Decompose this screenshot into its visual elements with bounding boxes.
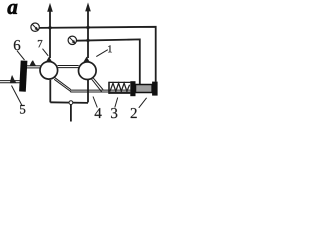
gauge G2 (pressure gauge) (68, 36, 76, 44)
node A junction dot left (48, 26, 51, 29)
wire tank line horizontal (50, 101, 88, 104)
gauge G1 (pressure gauge) (31, 23, 39, 31)
pump 1 outlet triangle (83, 57, 90, 63)
node C junction dot right gauge (86, 39, 89, 42)
input shaft 5 double line (0, 81, 20, 83)
wire line B horizontal y40.5 to right then down (77, 39, 140, 84)
arrow top of right supply line (85, 2, 91, 11)
label 7 leader (43, 49, 49, 56)
label 3 (111, 108, 117, 118)
wire supply line left vertical (49, 10, 51, 58)
node B junction dot crossing (86, 26, 89, 29)
pump 1 (right variable pump) circle (79, 62, 97, 80)
cylinder 2 barrel (136, 85, 153, 93)
label 3 leader (115, 98, 118, 108)
spring zigzag (110, 83, 130, 91)
spring 3 box (109, 82, 131, 94)
linkage 4 diagonal from pump 1 double line (92, 78, 104, 92)
drive block 6 (black bar) (19, 60, 27, 91)
label 6 (14, 40, 20, 50)
wire pump2 suction drop (87, 80, 89, 103)
label 1 leader (96, 50, 108, 57)
cylinder 2 right flange (152, 82, 158, 96)
linkage 4 diagonal from pump 7 double line (54, 77, 71, 91)
label 5 (20, 105, 25, 114)
label 2 leader (139, 98, 147, 108)
wire supply line right vertical (87, 9, 89, 58)
label 1 (108, 45, 112, 52)
wire gauge G2 stub (77, 40, 89, 42)
label 2 (131, 108, 137, 118)
wire gauge G1 stub (39, 27, 50, 29)
wire pump1 suction drop (49, 80, 51, 103)
label 7 (38, 40, 42, 47)
pump 7 (left variable pump) circle (40, 62, 58, 80)
linkage 4 horizontal double line (70, 90, 130, 92)
shaft from drive block 6 to pump 7 double line (27, 66, 41, 68)
arrow top of left supply line (47, 3, 53, 12)
arrow on input shaft (10, 75, 17, 83)
shaft between pumps double line (58, 66, 79, 68)
label 4 (95, 108, 102, 118)
label a (8, 4, 18, 14)
node tank junction open circle (69, 101, 73, 105)
label 6 leader (17, 51, 25, 60)
cylinder 2 left flange (130, 81, 135, 96)
arrow on drive shaft (30, 60, 37, 66)
pump 7 outlet triangle (46, 57, 53, 63)
label 5 leader (12, 86, 23, 106)
wire tank drop down (70, 104, 72, 121)
label 4 leader (93, 97, 97, 108)
wire line A horizontal y28 to right then down (40, 27, 156, 82)
